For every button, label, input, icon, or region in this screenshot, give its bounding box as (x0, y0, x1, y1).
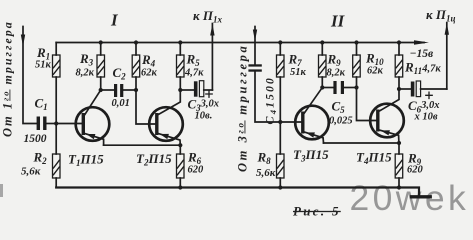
svg-text:0,025: 0,025 (329, 116, 353, 127)
svg-text:620: 620 (188, 165, 205, 176)
ground symbol (412, 195, 431, 198)
edge smudge (0, 184, 3, 197)
resistor R1 (53, 43, 61, 124)
node: input arrow 1 (21, 35, 25, 47)
svg-text:8,2к: 8,2к (76, 68, 95, 79)
resistor R7 (277, 43, 285, 123)
svg-text:II: II (330, 12, 346, 31)
wire: output to P1c (446, 23, 448, 89)
plus sign C3 (206, 91, 212, 97)
svg-text:Т4П15: Т4П15 (356, 150, 392, 167)
svg-text:20wek: 20wek (350, 178, 470, 218)
resistor R9 (319, 43, 327, 88)
svg-text:10в.: 10в. (195, 111, 213, 122)
node: output arrow P1x (210, 24, 214, 36)
resistor R6 (177, 145, 185, 187)
svg-text:−15в: −15в (410, 48, 434, 60)
svg-text:х 10в: х 10в (414, 112, 438, 123)
svg-text:51к: 51к (290, 67, 307, 78)
svg-text:5,6к: 5,6к (256, 167, 276, 179)
capacitor C5 (322, 81, 356, 94)
wire: base T3 (280, 121, 301, 123)
node: rail arrow -15V (414, 40, 429, 45)
svg-text:Т1П15: Т1П15 (68, 152, 104, 169)
svg-text:5,6к: 5,6к (21, 166, 41, 178)
svg-text:Рис. 5: Рис. 5 (293, 204, 341, 219)
wire: output to P1x (211, 24, 213, 91)
resistor R8 (277, 122, 285, 188)
node: output arrow P1c (445, 23, 449, 35)
svg-text:62к: 62к (141, 68, 158, 79)
transistor T3 (295, 88, 329, 144)
svg-text:От 3го триггера: От 3го триггера (236, 44, 250, 172)
svg-text:51к: 51к (35, 60, 52, 71)
capacitor C6 electrolytic (399, 81, 447, 97)
svg-text:4,7к: 4,7к (184, 68, 204, 79)
resistor R9b (620) (395, 143, 403, 188)
capacitor C1 (37, 117, 57, 131)
transistor T2 (149, 90, 183, 145)
capacitor C3 electrolytic (180, 81, 212, 97)
plus sign C6 (426, 92, 432, 98)
wire: bottom ground rail (56, 188, 419, 196)
svg-text:От 1го триггера: От 1го триггера (1, 20, 15, 137)
wire: -15V top rail (56, 42, 424, 44)
node: input arrow 2 (253, 30, 257, 42)
transistor T4 (370, 89, 404, 143)
svg-text:8,2к: 8,2к (327, 68, 346, 79)
resistor R4 (132, 43, 155, 125)
capacitor C4 (248, 64, 280, 122)
capacitor C2 (101, 84, 136, 97)
svg-text:С41500: С41500 (263, 76, 279, 124)
svg-text:Т3П15: Т3П15 (293, 147, 329, 164)
svg-text:Т2П15: Т2П15 (136, 151, 172, 168)
svg-text:0,01: 0,01 (112, 98, 130, 109)
wire: input from 1st trigger (23, 27, 36, 124)
resistor R2 (53, 124, 61, 188)
wire: base node T1 to base (56, 123, 81, 125)
wire: emitter bus I (104, 144, 181, 146)
resistor R10 (353, 43, 376, 121)
wire: input from 3rd trigger (254, 27, 256, 65)
svg-text:62к: 62к (367, 66, 384, 77)
resistor R3 (97, 43, 105, 91)
wire: emitter bus II (324, 142, 400, 144)
resistor R11 (395, 43, 403, 90)
transistor T1 (76, 90, 110, 145)
svg-text:620: 620 (407, 165, 424, 176)
svg-text:1500: 1500 (24, 133, 47, 145)
resistor R5 (177, 43, 185, 91)
